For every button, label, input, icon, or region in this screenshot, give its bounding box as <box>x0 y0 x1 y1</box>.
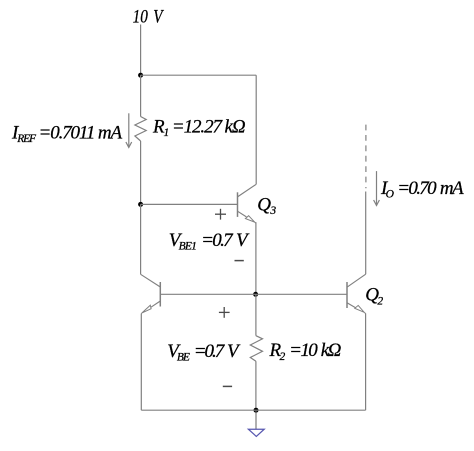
node junction base rail <box>253 292 258 297</box>
wire Q3 base <box>141 203 238 205</box>
wire R1 top lead <box>140 75 142 116</box>
wire supply lead <box>140 25 142 76</box>
label plus VBE1 <box>215 209 226 220</box>
resistor R1 <box>135 117 146 142</box>
label minus VBE1 <box>235 260 244 262</box>
label 10 V supply <box>133 6 165 27</box>
wire R2 top lead <box>255 294 257 335</box>
svg-text:IO =0.70 mA: IO =0.70 mA <box>380 178 464 201</box>
label plus VBE <box>219 307 230 318</box>
wire Q2 emitter lead <box>365 313 367 410</box>
wire dashed output lead <box>365 125 367 189</box>
wire Q3 collector lead <box>255 75 257 184</box>
transistor Q2 <box>347 274 366 313</box>
arrow IREF current <box>126 113 132 147</box>
transistor Q3 <box>238 184 257 223</box>
node junction top <box>138 73 143 78</box>
ground symbol <box>248 429 264 436</box>
wire R2 bottom lead <box>255 361 257 410</box>
wire bottom rail <box>141 409 365 411</box>
svg-text:R2 =10 kΩ: R2 =10 kΩ <box>269 340 342 363</box>
node junction ground <box>254 408 259 413</box>
wire top horizontal <box>141 74 257 76</box>
node junction Q3 base / Q1 collector <box>138 202 143 207</box>
wire ground stem <box>255 410 257 429</box>
wire Q3 emitter lead <box>255 222 257 294</box>
wire Q1 collector vertical <box>140 204 142 274</box>
svg-text:10: 10 <box>133 6 149 27</box>
wire R1 bottom lead <box>140 141 142 204</box>
wire Q2 collector lead <box>365 192 367 275</box>
transistor Q1 <box>141 274 161 314</box>
arrow IO current <box>374 171 380 205</box>
wire Q1 emitter lead <box>140 314 142 411</box>
wire Q1 base rail <box>160 293 347 295</box>
label minus VBE <box>223 385 232 387</box>
resistor R2 <box>250 336 262 362</box>
